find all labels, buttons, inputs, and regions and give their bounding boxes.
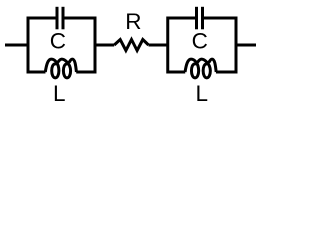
svg-text:L: L	[195, 81, 208, 106]
wire middle left	[95, 44, 114, 47]
capacitor C (right) plate 2	[201, 7, 204, 30]
wire left tank right half	[65, 18, 96, 72]
svg-text:C: C	[192, 28, 208, 53]
resistor R	[114, 40, 148, 51]
wire left tank left half	[28, 18, 56, 72]
svg-text:L: L	[53, 81, 66, 106]
svg-text:R: R	[125, 9, 141, 34]
capacitor C (right) plate 1	[195, 7, 198, 30]
inductor L (left)	[45, 59, 76, 78]
svg-text:C: C	[50, 28, 66, 53]
inductor L (right)	[185, 59, 216, 78]
wire middle right	[149, 44, 168, 47]
capacitor C (left) plate 2	[62, 7, 65, 30]
wire right tank right half	[204, 18, 236, 72]
wire left lead	[5, 44, 28, 47]
wire right lead	[236, 44, 256, 47]
capacitor C (left) plate 1	[56, 7, 59, 30]
wire right tank left half	[168, 18, 195, 72]
